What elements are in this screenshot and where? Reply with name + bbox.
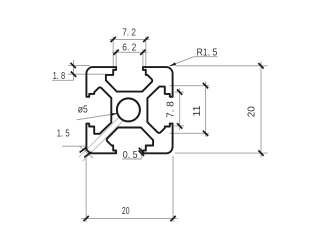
leader R1.5 (corner radius)	[169, 48, 218, 66]
svg-text:7. 8: 7. 8	[166, 101, 177, 118]
svg-text:7. 2: 7. 2	[122, 28, 136, 39]
svg-text:0. 5: 0. 5	[123, 150, 138, 161]
svg-text:20: 20	[122, 206, 130, 217]
dimension 7.2 (slot step width)	[110, 28, 150, 71]
dimension 1.5 (corner chamfer)	[57, 117, 124, 161]
dimension 11 (cavity width)	[170, 82, 210, 137]
svg-text:20: 20	[247, 106, 258, 117]
dimension 1.8 (lip depth)	[52, 60, 106, 82]
extrusion profile outline	[86, 67, 172, 153]
dimension 7.8 (slot channel)	[166, 88, 184, 130]
center hole circle ø5	[117, 98, 140, 121]
leader ø5 (center hole)	[77, 104, 118, 120]
dimension 0.5 (lip step)	[122, 148, 146, 162]
svg-text:1. 8: 1. 8	[53, 71, 66, 82]
dimension 6.2 (slot opening width)	[112, 43, 148, 67]
svg-text:ø5: ø5	[78, 104, 88, 115]
svg-text:R1. 5: R1. 5	[197, 48, 218, 59]
svg-text:6. 2: 6. 2	[122, 43, 136, 54]
svg-text:1. 5: 1. 5	[57, 129, 70, 140]
svg-text:11: 11	[192, 105, 203, 116]
dimension 20 (overall height)	[175, 62, 268, 158]
dimension 20 (overall width)	[81, 156, 178, 222]
